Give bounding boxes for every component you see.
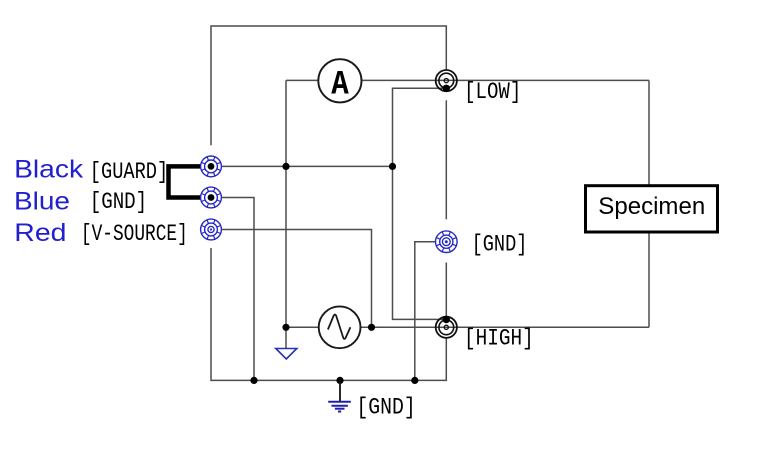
svg-text:[HIGH]: [HIGH]: [464, 326, 534, 352]
svg-text:Black: Black: [14, 155, 84, 183]
ground earth symbol: [328, 380, 351, 411]
node junction x392.5 GUARD row: [389, 163, 396, 170]
wire sine row y=327.3: [286, 326, 649, 328]
wire vertical x=286: [285, 80, 287, 348]
node junction bottom ground stem: [336, 377, 343, 384]
terminal GND left (blue): [201, 187, 222, 208]
svg-text:[GND]: [GND]: [472, 232, 528, 258]
svg-text:Specimen: Specimen: [598, 193, 705, 220]
node junction bottom x254: [250, 377, 257, 384]
svg-text:[GUARD]: [GUARD]: [90, 159, 168, 185]
terminal V-SOURCE (red): [201, 219, 222, 240]
svg-text:[LOW]: [LOW]: [464, 79, 521, 105]
svg-text:Blue: Blue: [14, 187, 70, 215]
wire low-bnc bottom loop x=392.5: [393, 88, 447, 319]
ground chassis triangle: [276, 349, 297, 360]
svg-text:[GND]: [GND]: [90, 189, 148, 215]
wire ammeter row y=80.4: [286, 79, 649, 81]
svg-text:[GND]: [GND]: [356, 395, 415, 421]
terminal GUARD (black): [201, 156, 222, 177]
node HIGH top junction: [443, 316, 450, 323]
svg-text:[V-SOURCE]: [V-SOURCE]: [81, 221, 188, 247]
svg-text:A: A: [331, 65, 349, 104]
wire specimen top from LOW: [648, 80, 650, 185]
node LOW bottom junction: [443, 85, 450, 92]
wire right GND terminal then down x=414.3: [415, 242, 436, 381]
node junction bottom x414: [411, 377, 418, 384]
thick jumper wire GUARD-GND: [169, 166, 212, 197]
terminal GND right (blue): [436, 231, 458, 253]
node junction x286 GUARD row: [282, 163, 289, 170]
node junction right of sine: [368, 324, 375, 331]
wire specimen bottom to HIGH: [648, 229, 650, 327]
ammeter U1: [318, 59, 361, 104]
specimen box: [586, 186, 718, 232]
terminal LOW bnc: [436, 70, 457, 91]
wire instrument box outline: [211, 26, 446, 380]
wire V-SOURCE row then down x=371.5: [222, 230, 372, 328]
sine source V1: [319, 306, 361, 348]
node junction left of sine: [282, 324, 289, 331]
terminal HIGH bnc: [436, 317, 457, 338]
wire GND row then down x=254: [222, 198, 255, 381]
wire GUARD row y=166.4: [222, 165, 393, 167]
svg-text:Red: Red: [14, 219, 66, 247]
